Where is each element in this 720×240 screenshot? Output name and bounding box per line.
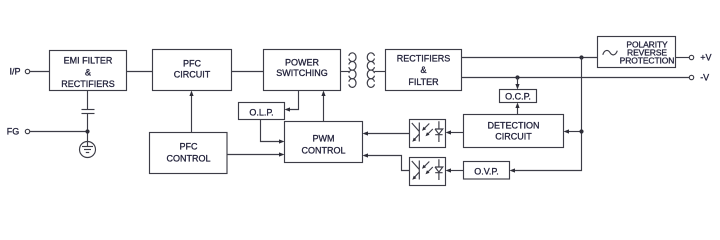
arrow into power switching bottom bbox=[321, 91, 325, 97]
svg-text:-V: -V bbox=[700, 73, 709, 83]
ground protective earth symbol bbox=[80, 142, 96, 158]
wire detection circuit up to O.C.P. bbox=[517, 105, 519, 115]
transformer T1 primary winding bbox=[349, 53, 356, 87]
svg-text:FILTER: FILTER bbox=[408, 77, 439, 87]
svg-text:POWER: POWER bbox=[285, 58, 320, 68]
block DETECTION CIRCUIT bbox=[464, 115, 564, 148]
svg-text:SWITCHING: SWITCHING bbox=[276, 68, 328, 78]
svg-text:RECTIFIERS: RECTIFIERS bbox=[61, 79, 115, 89]
wire I/P to EMI filter bbox=[30, 71, 50, 73]
optocoupler PC2 box bbox=[410, 158, 446, 186]
arrow into PWM control left upper bbox=[279, 139, 285, 143]
arrow into PWM control right lower bbox=[363, 153, 369, 157]
block POWER SWITCHING bbox=[264, 50, 341, 91]
wire -V rail down to O.C.P. bbox=[517, 78, 519, 88]
wire power switching to O.L.P. bbox=[287, 91, 299, 110]
wire PFC control to PFC circuit bbox=[191, 93, 193, 133]
svg-text:PFC: PFC bbox=[183, 59, 202, 69]
svg-text:+V: +V bbox=[700, 53, 711, 63]
terminal I/P circle bbox=[25, 69, 29, 73]
svg-text:CONTROL: CONTROL bbox=[166, 154, 210, 164]
svg-text:O.V.P.: O.V.P. bbox=[474, 167, 499, 177]
wire O.V.P. to lower optocoupler bbox=[450, 170, 464, 172]
svg-text:PWM: PWM bbox=[313, 134, 335, 144]
wire PWM control to power switching bbox=[323, 93, 325, 122]
svg-text:O.L.P.: O.L.P. bbox=[249, 108, 273, 118]
wire -V rail rectifiers to -V terminal bbox=[462, 77, 690, 79]
wire FG to earth node bbox=[30, 131, 88, 133]
svg-text:PROTECTION: PROTECTION bbox=[620, 55, 675, 65]
arrow into O.L.P. right bbox=[285, 107, 291, 111]
svg-text:PFC: PFC bbox=[180, 142, 199, 152]
arrow into upper optocoupler right bbox=[446, 130, 452, 134]
terminal FG circle bbox=[25, 129, 29, 133]
svg-text:EMI FILTER: EMI FILTER bbox=[64, 56, 113, 66]
svg-text:DETECTION: DETECTION bbox=[487, 121, 539, 131]
optocoupler PC2 LED bbox=[435, 159, 443, 180]
arrow into PFC circuit bottom bbox=[189, 91, 193, 97]
block EMI FILTER & RECTIFIERS bbox=[50, 51, 127, 91]
svg-text:RECTIFIERS: RECTIFIERS bbox=[397, 54, 451, 64]
svg-text:CONTROL: CONTROL bbox=[301, 146, 345, 156]
arrow into lower optocoupler right bbox=[446, 168, 452, 172]
svg-text:FG: FG bbox=[7, 127, 19, 137]
wire sense line to detection circuit bbox=[568, 131, 582, 133]
wire detection circuit to upper optocoupler bbox=[450, 132, 464, 134]
wire capacitor to earth symbol bbox=[87, 114, 89, 142]
wire EMI box to capacitor bbox=[87, 91, 89, 110]
wire PFC circuit to power switching bbox=[232, 71, 264, 73]
wire +V rail rectifiers to polarity protection bbox=[462, 57, 598, 59]
symbol fuse wave inside polarity box bbox=[603, 50, 618, 54]
block O.L.P. bbox=[239, 103, 285, 120]
wire transformer secondary to rectifiers bbox=[374, 71, 385, 73]
svg-text:I/P: I/P bbox=[9, 67, 20, 77]
block O.C.P. bbox=[500, 90, 537, 103]
arrow into O.C.P. bottom bbox=[515, 103, 519, 109]
wire lower optocoupler path to PWM control bbox=[367, 156, 410, 171]
block PFC CONTROL bbox=[150, 133, 228, 174]
optocoupler PC2 phototransistor bbox=[412, 161, 420, 180]
capacitor Y-cap plates bbox=[82, 109, 95, 111]
wire polarity protection to +V terminal bbox=[676, 57, 690, 59]
optocoupler PC1 LED bbox=[435, 121, 443, 142]
terminal +V circle bbox=[689, 55, 693, 59]
node junction -V rail to O.C.P. bbox=[515, 75, 519, 79]
terminal -V circle bbox=[689, 75, 693, 79]
svg-text:O.C.P.: O.C.P. bbox=[505, 92, 531, 102]
arrow into O.V.P. right bbox=[510, 168, 516, 172]
optocoupler PC1 box bbox=[410, 120, 446, 148]
optocoupler PC1 phototransistor bbox=[412, 123, 420, 142]
block POLARITY REVERSE PROTECTION bbox=[598, 37, 676, 68]
block PFC CIRCUIT bbox=[153, 50, 232, 91]
svg-text:&: & bbox=[85, 68, 91, 78]
arrow into O.C.P. top bbox=[515, 84, 519, 90]
block RECTIFIERS & FILTER bbox=[386, 50, 462, 91]
node junction sense line tap bbox=[579, 129, 583, 133]
wire upper optocoupler to PWM control bbox=[367, 133, 410, 135]
wire PFC control to PWM control bbox=[227, 154, 282, 156]
svg-text:&: & bbox=[420, 65, 426, 75]
optocoupler PC1 light arrows bbox=[423, 124, 433, 136]
arrow into PWM control right upper bbox=[363, 131, 369, 135]
wire EMI to PFC circuit bbox=[127, 71, 153, 73]
wire +V sense line down to O.V.P. bbox=[514, 58, 582, 171]
node junction FG wire bbox=[85, 129, 89, 133]
block PWM CONTROL bbox=[285, 122, 363, 163]
block O.V.P. bbox=[464, 162, 510, 180]
wire O.L.P. to PWM control bbox=[261, 120, 283, 142]
arrow into detection circuit right bbox=[564, 129, 570, 133]
arrow into PWM control left lower bbox=[279, 152, 285, 156]
svg-text:CIRCUIT: CIRCUIT bbox=[495, 132, 532, 142]
node junction +V rail to sense line bbox=[579, 55, 583, 59]
wire power switching to transformer primary bbox=[341, 71, 350, 73]
optocoupler PC2 light arrows bbox=[423, 162, 433, 174]
svg-text:CIRCUIT: CIRCUIT bbox=[174, 70, 211, 80]
transformer T1 secondary winding bbox=[367, 53, 374, 87]
